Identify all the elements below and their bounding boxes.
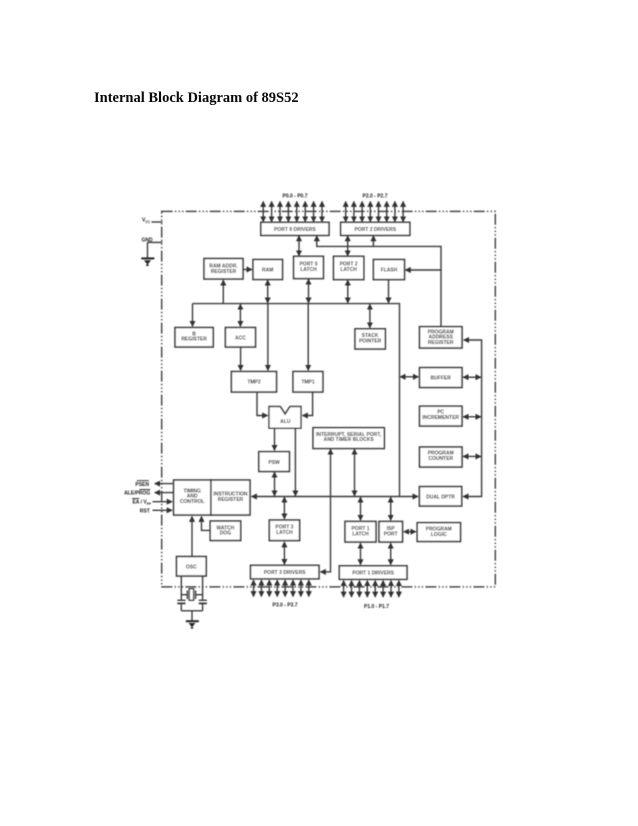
block TMP2 (231, 372, 276, 393)
svg-text:ALU: ALU (280, 419, 291, 425)
svg-text:LATCH: LATCH (352, 532, 369, 538)
wire buffer-right bus (double arrow) (463, 376, 481, 378)
block PORT 0 LATCH (294, 256, 324, 278)
wire ground drop (191, 611, 193, 621)
svg-text:REGISTER: REGISTER (428, 340, 454, 346)
block PC INCREMENTER (420, 406, 463, 426)
svg-text:REGISTER: REGISTER (211, 269, 237, 275)
ground symbol (oscillator) (186, 620, 199, 628)
svg-text:ACC: ACC (235, 336, 246, 342)
svg-text:INCREMENTER: INCREMENTER (422, 415, 459, 421)
svg-text:PORT: PORT (384, 532, 398, 538)
svg-text:LATCH: LATCH (276, 530, 293, 536)
pin PSEN (output) (135, 481, 173, 488)
wire ram addr register to ram (243, 269, 251, 271)
svg-text:RST: RST (140, 508, 150, 514)
crystal XTAL (181, 589, 202, 600)
svg-text:POINTER: POINTER (359, 338, 382, 344)
wire bus-port1 latch (double arrow) (360, 497, 362, 520)
block PORT 3 LATCH (269, 520, 299, 541)
wire main internal bus (upper) with right drop (193, 304, 400, 497)
svg-text:RAM: RAM (262, 268, 273, 274)
wire program counter-right bus (double arrow) (463, 455, 481, 457)
svg-text:P1.0 - P1.7: P1.0 - P1.7 (364, 604, 389, 610)
svg-text:AND TIMER BLOCKS: AND TIMER BLOCKS (323, 437, 374, 443)
block DUAL DPTR (419, 487, 461, 506)
svg-text:DOG: DOG (220, 531, 232, 537)
block INTERRUPT, SERIAL PORT, AND TIMER BLOCKS (313, 428, 384, 449)
wire ALU to bus (294, 428, 296, 495)
wire watchdog to timing (202, 517, 211, 531)
wire stub to port2drv (372, 236, 374, 246)
block WATCH DOG (210, 521, 241, 541)
svg-text:PORT 2 DRIVERS: PORT 2 DRIVERS (354, 227, 396, 233)
wire port2latch-bus (double arrow) (347, 280, 349, 303)
block PORT 2 LATCH (334, 256, 364, 279)
svg-text:TMP1: TMP1 (301, 380, 315, 386)
svg-text:REGISTER: REGISTER (218, 497, 244, 503)
wire port1latch-port1drivers (double arrow) (360, 543, 362, 564)
wire interrupt block to port3 drivers (321, 449, 331, 572)
wire lower data bus (252, 496, 418, 498)
wire flash to bus (388, 280, 390, 303)
wire bus-buffer left (double arrow) (400, 376, 418, 378)
block OSC (177, 557, 207, 577)
wire ACC to TMP2 (240, 347, 242, 370)
svg-text:ALE/PROG: ALE/PROG (124, 491, 150, 497)
chip boundary (dash-dot border) (162, 211, 496, 587)
svg-text:TMP2: TMP2 (247, 380, 261, 386)
svg-text:DUAL DPTR: DUAL DPTR (426, 495, 455, 501)
svg-text:VCC: VCC (142, 218, 151, 224)
wire port0latch-bus (double arrow) (308, 279, 310, 303)
svg-text:P2.0 - P2.7: P2.0 - P2.7 (362, 194, 387, 200)
wire port3latch-port3drivers (double arrow) (283, 542, 285, 564)
block PORT 1 DRIVERS (339, 566, 407, 580)
capacitor C2 (199, 600, 207, 611)
wire port0 pin arrows (8 double-headed) (263, 202, 322, 222)
block TIMING AND CONTROL (174, 480, 211, 515)
block PORT 0 DRIVERS (261, 222, 329, 235)
block PROGRAM ADDRESS REGISTER (420, 327, 463, 348)
pin RST (input) (140, 508, 172, 514)
svg-text:PSW: PSW (268, 460, 280, 466)
block PROGRAM COUNTER (420, 447, 463, 467)
wire ISP port-program logic (double arrow) (404, 531, 416, 533)
svg-text:CONTROL: CONTROL (180, 499, 205, 505)
wire TMP1 to ALU (303, 392, 313, 415)
wire bus to B register (192, 304, 194, 327)
block TMP1 (293, 372, 323, 393)
wire flash feed from address line (406, 269, 442, 271)
svg-text:PORT 3 DRIVERS: PORT 3 DRIVERS (264, 570, 306, 576)
wire right address bus (PAR to DUAL DPTR) (463, 340, 481, 497)
wire port2 pin arrows (8 double-headed) (346, 202, 403, 222)
wire bus-port3 latch (double arrow) (283, 497, 285, 518)
svg-text:BUFFER: BUFFER (431, 376, 452, 382)
wire ALU to PSW (274, 428, 276, 450)
svg-text:PORT 1 DRIVERS: PORT 1 DRIVERS (352, 571, 394, 577)
svg-text:P3.0 - P3.7: P3.0 - P3.7 (272, 603, 297, 609)
svg-text:LATCH: LATCH (300, 267, 317, 273)
svg-text:REGISTER: REGISTER (181, 337, 207, 343)
block PROGRAM LOGIC (417, 523, 460, 542)
wire port2drv-port2latch (double arrow) (347, 236, 349, 256)
block B REGISTER (175, 328, 213, 348)
svg-text:OSC: OSC (186, 565, 197, 571)
wire port1 pin arrows (8 double-headed) (344, 581, 399, 597)
svg-text:FLASH: FLASH (381, 268, 398, 274)
wire bus up to ram addr register (222, 280, 224, 303)
block PORT 2 DRIVERS (341, 222, 410, 235)
capacitor C1 (177, 600, 185, 611)
block RAM (253, 260, 283, 280)
block STACK POINTER (355, 329, 385, 349)
svg-text:EA / VPP: EA / VPP (132, 500, 151, 506)
node GND (142, 237, 163, 243)
wire port0drv-port0latch (double arrow) (298, 236, 300, 256)
block BUFFER (420, 368, 463, 388)
svg-text:PORT 0 DRIVERS: PORT 0 DRIVERS (274, 227, 316, 233)
wire oscillator left leg (180, 576, 182, 600)
wire OSC to timing (191, 517, 193, 557)
wire bus-ISP port (double arrow) (390, 497, 392, 520)
wire interrupt block-bus (double arrow) (354, 449, 356, 495)
block PORT 3 DRIVERS (251, 565, 320, 579)
svg-text:PSEN: PSEN (135, 482, 149, 488)
wire bus to TMP2 (267, 304, 269, 371)
op-amp ALU (box with V notch) (269, 407, 301, 429)
block RAM ADDR REGISTER (204, 259, 243, 280)
wire bus-stack pointer (double arrow) (369, 304, 371, 327)
block ACC (225, 328, 255, 348)
svg-text:COUNTER: COUNTER (428, 456, 453, 462)
wire TMP2 to ALU (257, 392, 268, 415)
pin EA / VPP (input) (132, 499, 172, 506)
node VCC (142, 218, 162, 224)
ground symbol (top-left) (141, 257, 154, 266)
wire pc incrementer-right bus (double arrow) (463, 416, 481, 418)
block ISP PORT (379, 521, 403, 542)
wire port3 pin arrows (8 double-headed) (254, 580, 309, 596)
wire bus to TMP1 (307, 304, 309, 371)
wire PSW-bus (double arrow) (274, 472, 276, 495)
wire address path port0drv to program address register (317, 236, 441, 326)
wire GND drop (147, 242, 149, 257)
block FLASH (373, 260, 404, 280)
svg-text:P0.0 - P0.7: P0.0 - P0.7 (282, 194, 307, 200)
block PORT 1 LATCH (345, 521, 376, 542)
pin ALE / PROG (output) (124, 490, 173, 497)
svg-text:LOGIC: LOGIC (431, 532, 447, 538)
svg-text:LATCH: LATCH (340, 267, 357, 273)
block INSTRUCTION REGISTER (211, 480, 250, 515)
wire RAM-bus (double arrow) (267, 280, 269, 303)
wire ISP-port1drivers (double arrow) (390, 543, 392, 564)
wire crystal bottom join (181, 610, 202, 612)
wire bus-ACC (double arrow) (239, 304, 241, 326)
wire oscillator right leg (202, 576, 204, 600)
block PSW (259, 452, 290, 472)
